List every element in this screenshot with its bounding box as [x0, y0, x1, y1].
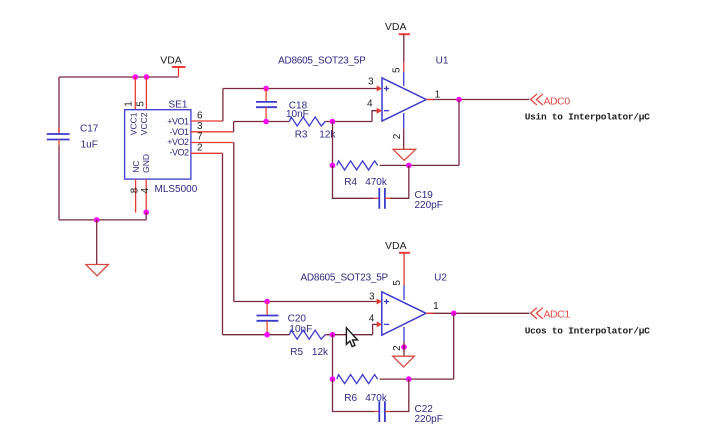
svg-text:MLS5000: MLS5000 [155, 184, 198, 195]
svg-text:6: 6 [197, 111, 203, 122]
svg-text:U2: U2 [434, 273, 447, 284]
svg-text:3: 3 [369, 292, 375, 303]
power VDA (U2) [385, 240, 410, 286]
svg-text:VDA: VDA [385, 21, 407, 33]
svg-text:4: 4 [369, 313, 375, 324]
node C18 bottom [263, 119, 269, 125]
ground (left) [86, 265, 109, 276]
wire pin4 to ground row [145, 212, 147, 220]
resistor R4 [337, 161, 388, 188]
svg-text:1: 1 [435, 89, 441, 100]
svg-text:Usin to Interpolator/µC: Usin to Interpolator/µC [525, 111, 650, 122]
svg-text:10nF: 10nF [286, 109, 309, 120]
wire pin7 down to U2 [233, 143, 235, 302]
capacitor C17 [47, 124, 99, 151]
svg-text:7: 7 [197, 132, 203, 143]
wire ground row [59, 219, 146, 221]
svg-text:3: 3 [197, 121, 203, 132]
chip SE1 MLS5000 [125, 100, 198, 196]
wire U1 output [426, 99, 529, 101]
pin 3 of SE1 [191, 121, 234, 132]
svg-text:-VO2: -VO2 [169, 147, 189, 157]
svg-text:5: 5 [392, 280, 403, 286]
resistor R6 [337, 375, 388, 404]
ground (U1) [393, 149, 416, 160]
svg-text:470k: 470k [365, 177, 388, 188]
svg-text:-VO1: -VO1 [169, 127, 189, 137]
wire U1 output down to feedback [458, 100, 460, 166]
pin 5 of SE1 [136, 77, 147, 110]
svg-text:R4: R4 [344, 177, 357, 188]
wire U2 pin2 to ground [403, 342, 405, 356]
wire minus jog U1 [372, 111, 377, 122]
pin 4 of SE1 [140, 179, 151, 212]
wire U2 output [426, 312, 529, 314]
svg-text:AD8605_SOT23_5P: AD8605_SOT23_5P [301, 273, 389, 284]
svg-text:ADC0: ADC0 [544, 95, 571, 107]
node feedback right U2 [406, 376, 412, 382]
node C18 top [263, 86, 269, 92]
svg-text:SE1: SE1 [169, 100, 188, 111]
svg-text:C20: C20 [288, 314, 307, 325]
svg-text:220pF: 220pF [415, 414, 443, 425]
node feedback right U1 [406, 163, 412, 169]
svg-text:1: 1 [433, 301, 439, 312]
wire row B (R3 row) [234, 121, 372, 123]
wire feedback row U2 [380, 378, 454, 380]
svg-text:VDA: VDA [385, 240, 407, 252]
port ADC1 [531, 308, 571, 321]
wire U1 pin2 to ground [403, 128, 405, 149]
wire row B' (R5 row) [223, 334, 373, 336]
svg-text:GND: GND [141, 154, 151, 173]
svg-text:1: 1 [124, 101, 135, 107]
node pin1 junction [133, 74, 139, 80]
wire R5 node down to feedback [332, 335, 334, 379]
node feedback left U1 [330, 163, 336, 169]
node R3 junction [330, 119, 336, 125]
node feedback left U2 [330, 376, 336, 382]
svg-text:5: 5 [136, 101, 147, 107]
wire C17 left vertical [58, 77, 60, 134]
svg-text:5: 5 [392, 67, 403, 73]
node pin4 junction [143, 210, 149, 216]
svg-text:4: 4 [140, 187, 151, 193]
wire C22 loop right [385, 379, 409, 411]
ground (U2) [393, 356, 415, 367]
op-amp U1 [278, 56, 449, 140]
wire minus jog U2 [373, 324, 378, 334]
capacitor C20 [257, 302, 313, 336]
svg-text:1uF: 1uF [81, 140, 98, 151]
svg-text:2: 2 [197, 143, 203, 154]
wire R3 node down to feedback [332, 122, 334, 166]
mouse cursor [346, 328, 357, 347]
wire C19 loop left [333, 165, 380, 198]
node pin5 junction [144, 74, 150, 80]
wire row A' (U2 +) [234, 301, 377, 303]
wire C22 loop left [333, 379, 380, 411]
capacitor C19 [379, 188, 443, 211]
svg-text:VCC2: VCC2 [139, 112, 149, 135]
wire C17 bottom vertical [58, 140, 60, 220]
wire pin2 down to U2 [222, 153, 224, 334]
power VDA (U1) [385, 21, 410, 72]
wire row A (U1 +) [223, 88, 377, 90]
capacitor C22 [379, 401, 443, 425]
net label Usin [525, 111, 650, 122]
svg-text:U1: U1 [436, 56, 449, 67]
node U2 output junction [451, 311, 457, 317]
svg-text:NC: NC [131, 161, 141, 173]
wire feedback row U1 [380, 164, 459, 166]
wire pin3 jog up [233, 122, 235, 132]
node U2 pin2 junction [401, 344, 407, 350]
svg-text:VCC1: VCC1 [129, 112, 139, 135]
node U1 output junction [456, 97, 462, 103]
svg-text:+VO2: +VO2 [167, 137, 189, 147]
svg-text:2: 2 [392, 133, 403, 139]
svg-text:4: 4 [367, 99, 373, 110]
resistor R3 [289, 117, 336, 141]
svg-text:Ucos to Interpolator/µC: Ucos to Interpolator/µC [525, 325, 650, 336]
svg-text:C17: C17 [80, 124, 99, 135]
wire pin6 up [222, 89, 224, 122]
svg-text:12k: 12k [319, 130, 336, 141]
capacitor C18 [256, 89, 309, 122]
op-amp U2 [301, 273, 448, 351]
pin 2 of SE1 [191, 143, 223, 154]
wire C19 loop right [385, 165, 409, 198]
svg-text:R5: R5 [290, 347, 303, 358]
pin 8 of SE1 [130, 179, 141, 212]
svg-text:8: 8 [130, 187, 141, 193]
svg-text:3: 3 [368, 77, 374, 88]
svg-text:R6: R6 [344, 393, 357, 404]
node R5 junction [330, 332, 336, 338]
power VDA (left) [160, 55, 185, 78]
svg-text:220pF: 220pF [415, 200, 443, 211]
wire U2 output down to feedback [453, 313, 455, 379]
svg-text:AD8605_SOT23_5P: AD8605_SOT23_5P [278, 56, 366, 67]
net label Ucos [525, 325, 650, 336]
wire top-left horizontal [59, 76, 179, 78]
pin 7 of SE1 [191, 132, 234, 143]
resistor R5 [289, 330, 329, 358]
port ADC0 [531, 94, 571, 107]
svg-text:+VO1: +VO1 [167, 117, 189, 127]
node ground branch [94, 217, 100, 223]
node C20 bottom [264, 332, 270, 338]
pin 1 of SE1 [124, 77, 136, 110]
pin 6 of SE1 [191, 111, 223, 122]
wire ground stub [96, 220, 98, 265]
svg-text:12k: 12k [312, 347, 329, 358]
svg-text:VDA: VDA [160, 55, 182, 67]
svg-text:R3: R3 [295, 130, 308, 141]
node C20 top [264, 299, 270, 305]
svg-text:ADC1: ADC1 [544, 309, 571, 321]
